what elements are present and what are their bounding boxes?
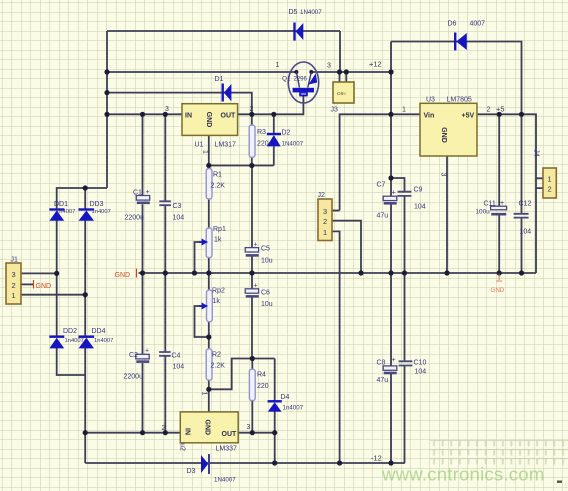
svg-text:C3: C3 — [173, 203, 182, 210]
svg-text:GND: GND — [440, 127, 447, 143]
resistor R4 — [249, 369, 255, 400]
wire Rp2 top — [208, 273, 210, 290]
label U2 — [178, 443, 237, 452]
wire DD3 top — [84, 188, 86, 210]
svg-text:OUT: OUT — [222, 431, 238, 438]
wire C8 column — [390, 273, 392, 463]
capacitor C7 — [383, 196, 397, 203]
wire D5 branch down — [339, 31, 341, 72]
svg-text:104: 104 — [520, 229, 532, 236]
wire J2 pin3 stub — [332, 210, 340, 212]
svg-text:u2: u2 — [178, 443, 185, 451]
svg-text:www.cntronics.com: www.cntronics.com — [381, 464, 545, 485]
wire Rp2 wiper link — [195, 306, 209, 337]
svg-text:Rp1: Rp1 — [213, 226, 226, 233]
svg-text:D3: D3 — [187, 468, 196, 475]
svg-text:220: 220 — [257, 383, 269, 390]
svg-text:DD4: DD4 — [92, 328, 106, 335]
pin 2 U2 — [162, 425, 166, 432]
svg-text:+: + — [392, 190, 396, 197]
wire -12 rail — [85, 462, 405, 464]
diode D3 — [201, 454, 209, 474]
wire ADJ net — [209, 165, 274, 167]
svg-text:1: 1 — [548, 175, 552, 184]
wire R4 top — [251, 359, 253, 370]
wire U1 input rail — [107, 113, 182, 115]
pin name +5V U3 — [462, 113, 475, 120]
diode D4 — [268, 401, 282, 411]
wire GND bus — [139, 272, 537, 274]
label C11 — [476, 200, 505, 216]
pin name GND U3 — [440, 127, 447, 143]
label U1 — [195, 142, 237, 149]
label Rp2 — [212, 288, 225, 306]
svg-text:+: + — [145, 348, 149, 355]
svg-text:LM7805: LM7805 — [447, 97, 472, 104]
svg-text:GND: GND — [36, 283, 52, 290]
svg-text:1n4007: 1n4007 — [92, 209, 111, 215]
svg-text:C6≈: C6≈ — [337, 91, 346, 97]
label J3 — [331, 91, 347, 114]
pin 2 U3 — [487, 107, 491, 114]
svg-text:GND: GND — [205, 112, 212, 128]
wire DD3 to DD4 column — [84, 221, 86, 338]
svg-text:C11: C11 — [484, 201, 496, 208]
svg-text:10u: 10u — [261, 258, 273, 265]
capacitor C11 — [491, 206, 507, 214]
svg-text:1: 1 — [276, 62, 280, 69]
svg-text:GND: GND — [491, 287, 505, 294]
wire J2 pin2 to bus — [332, 221, 361, 273]
op-amp U3 regulator box — [420, 103, 477, 156]
diode DD2 — [49, 337, 64, 349]
diode DD3 — [79, 210, 95, 221]
wire Rp1 wiper to bus — [195, 242, 206, 273]
svg-text:3: 3 — [440, 173, 447, 177]
svg-text:1: 1 — [323, 228, 327, 237]
wire C6 column — [251, 273, 253, 359]
capacitor C10 — [399, 361, 413, 365]
svg-text:3: 3 — [11, 270, 15, 279]
net label +12 — [369, 60, 382, 69]
wire C4 column — [164, 273, 166, 433]
label C9 — [414, 187, 426, 211]
wire C12 column — [521, 114, 523, 273]
net label GND at J1 pin2 — [34, 280, 52, 290]
pin 1 U2 — [201, 392, 208, 396]
wire Rp1 to bus — [208, 258, 210, 273]
diode D5 — [295, 23, 304, 41]
pin 3 U3 — [440, 173, 447, 177]
svg-text:D6: D6 — [448, 21, 457, 28]
label C7 — [377, 182, 396, 220]
svg-text:2200u: 2200u — [124, 374, 144, 381]
junction dots Q1 pins — [294, 70, 313, 74]
svg-text:J1: J1 — [11, 257, 19, 264]
label D6 — [448, 21, 486, 28]
svg-text:Rp2: Rp2 — [212, 288, 225, 295]
svg-text:1N4007: 1N4007 — [300, 9, 322, 16]
wire DD1 to DD2 column — [56, 221, 58, 338]
label R3 — [257, 129, 269, 148]
net label +5 — [496, 105, 504, 114]
pin 1 U1 — [201, 150, 208, 154]
junction dots +12 rail — [337, 69, 394, 74]
resistor R2 — [206, 349, 212, 380]
wire C11 column — [498, 114, 500, 273]
wire Rp2 to R2 — [208, 322, 210, 349]
svg-text:C1: C1 — [133, 190, 142, 197]
wire Q1 collector to +12 — [311, 71, 391, 73]
label C1 — [125, 189, 150, 222]
svg-text:1n4007: 1n4007 — [283, 405, 304, 412]
svg-text:U1: U1 — [195, 142, 204, 149]
transistor Q1 — [288, 62, 318, 103]
label C6 — [254, 283, 273, 309]
wire C10 column — [404, 273, 406, 463]
svg-text:1: 1 — [201, 392, 208, 396]
svg-text:U3: U3 — [426, 97, 435, 104]
wire left feed column — [106, 31, 108, 188]
junction dots bridge link — [83, 185, 88, 435]
capacitor C2 — [136, 354, 150, 361]
junction dots ADJ net — [206, 163, 254, 168]
label DD3 — [90, 201, 111, 215]
svg-text:DD2: DD2 — [63, 328, 77, 335]
wire U2 input rail — [85, 432, 180, 434]
pin 2 U1 — [250, 106, 254, 113]
svg-text:2: 2 — [250, 106, 254, 113]
svg-text:1n4007: 1n4007 — [56, 209, 75, 215]
label Q1 — [282, 76, 308, 83]
capacitor C6 — [245, 289, 259, 297]
svg-text:C10: C10 — [414, 360, 427, 367]
diode D2 — [267, 134, 281, 146]
label Rp1 — [213, 226, 226, 244]
junction dots left column — [104, 69, 109, 117]
wire J3 pin stubs — [340, 72, 347, 82]
svg-text:Vin: Vin — [424, 113, 435, 120]
svg-text:104: 104 — [415, 369, 427, 376]
label U3 — [426, 97, 472, 104]
connector J1 — [6, 263, 21, 304]
svg-text:C9: C9 — [414, 187, 423, 194]
svg-text:1n4007: 1n4007 — [94, 338, 113, 344]
svg-text:DD3: DD3 — [90, 201, 104, 208]
svg-text:+: + — [392, 357, 396, 364]
wire bridge bottom link — [57, 348, 85, 463]
net label GND at bus start — [115, 269, 137, 280]
svg-text:2.2K: 2.2K — [211, 363, 226, 370]
svg-text:C4: C4 — [172, 353, 181, 360]
wire R3 top — [251, 114, 253, 125]
capacitor C12 — [514, 214, 529, 218]
pin name GND U2 — [203, 420, 210, 436]
junction dots +5 rail — [497, 112, 525, 117]
junction dots bus — [140, 270, 524, 275]
svg-text:D2: D2 — [282, 130, 291, 137]
wire D4 column — [274, 359, 276, 464]
label C10 — [414, 360, 427, 376]
label R4 — [257, 372, 269, 391]
capacitor C3 — [159, 201, 171, 205]
svg-text:1N4007: 1N4007 — [282, 141, 304, 148]
wire R2 to U2 ADJ — [208, 380, 210, 412]
svg-text:R1: R1 — [213, 172, 222, 179]
svg-text:2: 2 — [11, 281, 15, 290]
svg-text:C5: C5 — [261, 246, 270, 253]
op-amp U2 regulator box — [180, 412, 238, 443]
label C4 — [172, 353, 185, 371]
svg-text:J3: J3 — [331, 107, 339, 114]
corner mark — [557, 481, 562, 483]
wire U3 GND pin — [446, 156, 448, 273]
label C12 — [519, 201, 532, 236]
junction dots J1 — [54, 271, 88, 298]
svg-text:47u: 47u — [377, 213, 389, 220]
wire top rail to D5 — [107, 30, 340, 32]
svg-text:-12: -12 — [371, 454, 382, 463]
pin name IN U2 — [183, 428, 190, 435]
junction dots -12 rail — [272, 460, 394, 465]
svg-text:D5: D5 — [289, 9, 298, 16]
diode DD1 — [49, 210, 64, 221]
wire J1 pin3 — [21, 272, 57, 274]
label D1 — [215, 76, 224, 83]
svg-text:D1: D1 — [215, 76, 224, 83]
svg-text:IN: IN — [185, 113, 192, 120]
diode D6 — [455, 33, 467, 51]
capacitor C5 — [245, 248, 259, 256]
svg-text:1: 1 — [11, 291, 15, 300]
wire C2 column — [142, 273, 144, 433]
svg-text:C2: C2 — [129, 352, 138, 359]
junction dots Vin and tie — [388, 112, 393, 181]
svg-text:47u: 47u — [377, 377, 389, 384]
svg-text:IN: IN — [183, 428, 190, 435]
capacitor C1 — [136, 196, 150, 203]
svg-text:104: 104 — [414, 204, 426, 211]
capacitor C8 — [383, 366, 397, 373]
svg-text:+5V: +5V — [462, 113, 475, 120]
wire D6 top branch — [391, 42, 522, 115]
wire U1 ADJ pin — [208, 135, 210, 168]
pin 1 U3 — [402, 107, 406, 114]
wire ADJ2 net — [209, 359, 275, 390]
connector J2 — [318, 199, 332, 241]
svg-text:R2: R2 — [212, 352, 221, 359]
wire C3 column — [164, 114, 166, 273]
label DD1 — [54, 201, 75, 215]
pin numbers J1 — [11, 270, 15, 300]
svg-text:C12: C12 — [519, 201, 532, 208]
label DD4 — [92, 328, 114, 344]
svg-text:GND: GND — [203, 420, 210, 436]
pin name IN U1 — [185, 113, 192, 120]
wire bridge top link — [57, 188, 107, 210]
pin 3 U1 — [165, 106, 169, 113]
wire +5 rail — [477, 114, 536, 273]
wire C7 C9 tie — [391, 178, 405, 273]
potentiometer Rp2 — [199, 290, 212, 322]
svg-text:2: 2 — [487, 107, 491, 114]
connector J4 — [543, 168, 556, 198]
label J2 — [318, 192, 326, 199]
svg-text:LM337: LM337 — [216, 446, 238, 453]
pin name Vin U3 — [424, 113, 435, 120]
label R2 — [211, 352, 226, 370]
pin name GND U1 — [205, 112, 212, 128]
wire D2 column — [273, 114, 275, 165]
svg-text:2.2K: 2.2K — [211, 183, 226, 190]
wire Vin rail — [340, 114, 420, 210]
diode D1 — [223, 84, 232, 102]
svg-text:+: + — [254, 283, 258, 290]
pin name OUT U2 — [222, 431, 238, 438]
wire J4 pin stubs — [536, 178, 543, 188]
wire J1 pin2 stub — [21, 283, 33, 285]
label D5 — [289, 9, 323, 16]
svg-text:100u: 100u — [476, 209, 491, 216]
svg-text:DD1: DD1 — [54, 201, 68, 208]
op-amp U1 regulator box — [182, 104, 238, 136]
svg-text:C7: C7 — [377, 182, 386, 189]
svg-text:OUT: OUT — [221, 113, 237, 120]
svg-text:+5: +5 — [496, 105, 504, 114]
wire U2 output — [238, 432, 275, 434]
svg-text:+: + — [146, 189, 150, 196]
label D3 — [187, 468, 237, 484]
wire Q1 emitter rail — [107, 71, 296, 73]
label C2 — [124, 348, 150, 381]
watermark — [381, 464, 545, 485]
pin 1 Q1 — [276, 62, 280, 69]
svg-text:+: + — [500, 200, 504, 207]
pin name OUT U1 — [221, 113, 237, 120]
svg-text:R3: R3 — [257, 129, 266, 136]
svg-text:1: 1 — [201, 150, 208, 154]
svg-text:1N4007: 1N4007 — [214, 477, 236, 484]
label C8 — [377, 357, 396, 384]
wire R3 bottom — [251, 157, 253, 165]
svg-text:R4: R4 — [257, 372, 266, 379]
svg-text:2200u: 2200u — [125, 215, 145, 222]
jumper J3 — [333, 82, 354, 103]
wire R4 bottom — [251, 401, 253, 433]
svg-text:C8: C8 — [377, 360, 386, 367]
ground symbol GND right — [491, 274, 505, 295]
capacitor C4 — [159, 352, 171, 356]
label C3 — [173, 203, 185, 222]
wire main column — [390, 42, 392, 274]
resistor R3 — [249, 125, 255, 157]
label D2 — [282, 130, 304, 148]
potentiometer Rp1 — [199, 228, 212, 258]
pin 3 U2 — [247, 424, 251, 431]
svg-text:2: 2 — [548, 185, 552, 194]
label J1 — [11, 257, 19, 264]
svg-text:3: 3 — [327, 63, 331, 70]
svg-text:3: 3 — [247, 424, 251, 431]
svg-text:+: + — [254, 242, 258, 249]
svg-text:J2: J2 — [318, 192, 326, 199]
wire C5 column — [251, 166, 253, 274]
resistor R1 — [206, 169, 212, 200]
svg-text:1k: 1k — [213, 298, 221, 305]
label C5 — [254, 242, 273, 265]
junction dots U1 rails — [140, 112, 277, 117]
pin numbers J4 — [548, 175, 552, 194]
wire D1 rail — [107, 93, 252, 115]
diode DD4 — [79, 337, 95, 349]
svg-text:LM317: LM317 — [215, 142, 237, 149]
svg-text:C6: C6 — [261, 290, 270, 297]
wire J1 pin1 — [21, 294, 85, 296]
junction dots ADJ2 net — [206, 334, 255, 392]
svg-text:1k: 1k — [214, 237, 222, 244]
svg-text:2: 2 — [323, 217, 327, 226]
wire J2 pin1 to -12 — [332, 231, 340, 463]
svg-text:104: 104 — [173, 364, 185, 371]
svg-text:1n4007: 1n4007 — [65, 338, 84, 344]
svg-text:J4: J4 — [532, 149, 539, 157]
label D4 — [281, 394, 304, 412]
svg-text:104: 104 — [173, 215, 185, 222]
pin numbers J2 — [323, 207, 327, 237]
svg-text:2296: 2296 — [294, 77, 308, 83]
junction dots U2 rails — [140, 430, 277, 435]
label DD2 — [63, 328, 84, 344]
svg-text:+12: +12 — [369, 60, 382, 69]
pin 3 Q1 — [327, 63, 331, 70]
svg-text:10u: 10u — [261, 301, 273, 308]
label J4 — [532, 149, 539, 157]
svg-text:Q1: Q1 — [282, 76, 291, 83]
svg-text:D4: D4 — [281, 394, 290, 401]
svg-text:3: 3 — [165, 106, 169, 113]
svg-text:2: 2 — [162, 425, 166, 432]
svg-text:4007: 4007 — [470, 21, 486, 28]
svg-text:GND: GND — [115, 272, 131, 279]
wire C1 column — [142, 114, 144, 273]
wire R1 to Rp1 — [208, 199, 210, 228]
svg-text:3: 3 — [323, 207, 327, 216]
label R1 — [211, 172, 226, 190]
capacitor C9 — [398, 192, 412, 196]
net label -12 — [371, 454, 382, 463]
wire U1 output — [238, 94, 304, 114]
svg-text:220: 220 — [257, 141, 269, 148]
svg-text:1: 1 — [402, 107, 406, 114]
